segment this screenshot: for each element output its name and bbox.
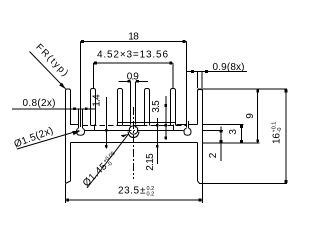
text dia 1.45 +0.05/0 rotated bbox=[81, 151, 121, 190]
right side extension lines bbox=[197, 89, 287, 184]
dim 2 bbox=[220, 127, 223, 162]
left screw channel bulb bbox=[77, 128, 85, 135]
leader dia 1.45 bbox=[87, 134, 129, 188]
heatsink left leg outer lip bbox=[66, 89, 79, 184]
center screw channel circle bbox=[129, 126, 138, 135]
right base floor segments bbox=[177, 124, 198, 126]
leader FR(typ) bbox=[30, 52, 66, 90]
svg-text:3.5: 3.5 bbox=[151, 100, 162, 113]
heatsink right leg outer lip bbox=[198, 90, 203, 184]
dim 16 bbox=[285, 89, 288, 184]
dim 1.4 bbox=[105, 97, 108, 149]
fin 3 bbox=[118, 89, 123, 126]
text 23.5 +0.2/-0.2 bbox=[118, 186, 154, 198]
svg-text:16: 16 bbox=[272, 133, 283, 144]
center screw channel mouth bbox=[123, 126, 145, 128]
base top solid line center bbox=[118, 122, 176, 124]
center channel boss bbox=[128, 132, 139, 138]
dim 4.52x3=13.56 bbox=[93, 62, 173, 89]
right step shelf bbox=[173, 125, 175, 131]
dim 0.9 center slot bbox=[119, 80, 149, 125]
dim 0.9(8x) bbox=[186, 70, 247, 88]
fin 4 bbox=[145, 89, 150, 126]
svg-text:2: 2 bbox=[208, 152, 219, 158]
svg-text:3: 3 bbox=[228, 129, 239, 135]
svg-text:4.52×3=13.56: 4.52×3=13.56 bbox=[97, 50, 168, 61]
left leg inner face below ledge and foot chamfer bbox=[66, 143, 71, 184]
svg-text:1.4: 1.4 bbox=[92, 94, 103, 107]
dim 9 bbox=[256, 89, 259, 143]
text 16 +0.1/0 rotated bbox=[272, 122, 284, 144]
cavity ceiling line bbox=[85, 130, 184, 132]
svg-text:-0: -0 bbox=[277, 128, 283, 133]
fin 2 bbox=[91, 89, 96, 126]
inner ledge line bbox=[71, 142, 198, 144]
centerline vertical of center channel bbox=[133, 107, 135, 179]
dim 2.15 bbox=[156, 118, 159, 164]
svg-text:18: 18 bbox=[128, 32, 139, 43]
svg-text:0.9: 0.9 bbox=[127, 72, 139, 83]
svg-text:0.9(8x): 0.9(8x) bbox=[213, 62, 245, 73]
dim 3.5 bbox=[164, 96, 167, 140]
dim 18 bbox=[81, 40, 187, 127]
svg-text:23.5: 23.5 bbox=[118, 186, 139, 197]
right screw channel bulb bbox=[184, 128, 191, 135]
svg-text:0.8(2x): 0.8(2x) bbox=[23, 98, 56, 109]
left screw channel extension walls bbox=[79, 109, 83, 129]
right screw channel mouth wall bbox=[188, 121, 190, 128]
centerline horizontal tick of center channel bbox=[127, 130, 141, 132]
left step shelf bbox=[94, 125, 96, 131]
leader dia 1.5 (2x) bbox=[17, 131, 81, 149]
hidden edge dashed line bbox=[83, 125, 187, 127]
dim 23.5 bottom bbox=[65, 184, 202, 203]
svg-text:2.15: 2.15 bbox=[145, 153, 156, 171]
dim 0.8(2x) bbox=[12, 108, 95, 111]
right leg inner face below and foot chamfer bbox=[198, 143, 203, 184]
svg-text:9: 9 bbox=[245, 113, 256, 119]
svg-text:0.2: 0.2 bbox=[147, 192, 155, 198]
fin 5 bbox=[171, 89, 176, 126]
dim 3 bbox=[240, 125, 243, 143]
svg-text:±: ± bbox=[140, 186, 146, 197]
